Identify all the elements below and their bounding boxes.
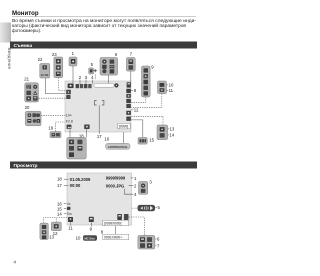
wire from 12/13 boxes (dashed): [44, 218, 69, 223]
svg-text:Монитор: Монитор: [12, 10, 39, 17]
svg-text:6: 6: [115, 52, 118, 57]
svg-text:4x: 4x: [67, 202, 71, 206]
callout 23 icon box: [54, 57, 63, 78]
svg-text:17: 17: [97, 134, 102, 139]
callout 15 icon box: [138, 138, 147, 145]
wire to callout 6/7 box (dashed): [129, 217, 145, 235]
callout 1 icon box: [69, 57, 77, 66]
intro paragraph: [12, 18, 197, 33]
callout 6 label (playback): [155, 237, 160, 242]
callout 6/7 icon box: [138, 235, 155, 249]
callout 9 label (playback): [90, 227, 93, 232]
svg-text:2: 2: [134, 183, 137, 188]
callout 8 label (playback): [101, 229, 104, 234]
callout 9 label: [151, 65, 154, 70]
callout 1 label (playback): [131, 176, 137, 181]
callout 22 label: [38, 57, 43, 62]
svg-text:F2.8: F2.8: [66, 120, 73, 124]
callout 16 quality badge: [106, 143, 130, 149]
svg-text:11: 11: [169, 88, 174, 93]
zoom knob icon: [114, 83, 118, 87]
svg-text:10: 10: [169, 83, 174, 88]
svg-text:19: 19: [48, 125, 53, 130]
section header Просмотр: [10, 162, 197, 169]
wire 5 (dotted): [132, 207, 138, 209]
svg-text:9: 9: [151, 65, 154, 70]
svg-text:21: 21: [24, 76, 29, 81]
svg-text:11: 11: [68, 226, 73, 231]
wire 18b to screen icon: [69, 129, 71, 137]
callout 3 label and tick: [85, 75, 88, 84]
svg-text:Dw: Dw: [67, 212, 72, 216]
svg-text:[9999]: [9999]: [119, 125, 128, 129]
file name text in screen: [106, 183, 124, 188]
svg-text:17: 17: [57, 183, 62, 188]
wire 21 to screen (dashed): [39, 97, 66, 99]
sidebar label Введение: [7, 48, 12, 70]
monitor screen (shooting): [65, 81, 131, 132]
svg-text:8: 8: [101, 229, 104, 234]
callout 13 label: [168, 127, 175, 132]
svg-text:14: 14: [57, 211, 62, 216]
callout 8 label with tick: [131, 88, 136, 93]
left column icons in screen: [66, 90, 71, 99]
callout 3 icon box (playback): [139, 182, 148, 195]
file info box below screen: [103, 234, 129, 240]
callout 16 label and icon (playback): [57, 201, 71, 206]
callout 17 label (playback): [57, 183, 69, 188]
callout 19 label: [48, 125, 53, 130]
callout 7 icon box: [126, 58, 135, 72]
page title Монитор: [12, 10, 196, 17]
callout 18 icon box: [67, 137, 86, 159]
top row indicator icons: [76, 84, 92, 88]
svg-text:1: 1: [72, 51, 75, 56]
svg-text:10: 10: [76, 236, 81, 241]
right column icons in screen: [126, 89, 131, 121]
svg-text:15: 15: [149, 138, 154, 143]
callout 1 label: [72, 51, 75, 56]
battery icon (top-right in screen): [127, 82, 131, 87]
wire 16 from screen: [123, 132, 125, 143]
wire 13/14 from screen (dashed): [131, 116, 163, 125]
svg-text:7: 7: [157, 244, 160, 249]
svg-text:1: 1: [134, 176, 137, 181]
svg-text:01.05.2009: 01.05.2009: [70, 177, 91, 182]
wire 9 to screen (dashed): [131, 97, 146, 102]
svg-text:3: 3: [149, 180, 152, 185]
callout 17 label: [97, 134, 102, 139]
svg-text:9: 9: [90, 227, 93, 232]
callout 15 label and icon (playback): [57, 206, 70, 211]
wire 23 to screen (dashed): [58, 78, 65, 91]
callout 12 label (playback): [53, 231, 58, 236]
callout 22 icon box: [40, 64, 50, 79]
callout 7 label: [130, 52, 133, 57]
svg-text:16: 16: [105, 137, 110, 142]
svg-text:4: 4: [13, 259, 16, 264]
svg-text:11:30: 11:30: [41, 73, 49, 77]
svg-text:13: 13: [49, 235, 54, 240]
svg-text:20: 20: [25, 105, 30, 110]
callout 7 label (playback): [155, 244, 160, 249]
aperture text in screen: [66, 120, 73, 124]
svg-text:7: 7: [130, 52, 133, 57]
voice memo icon in screen (9): [89, 217, 94, 222]
wire 1 to screen: [72, 66, 74, 83]
callout 20 label: [25, 105, 30, 110]
battery/print icons in screen bottom-right: [117, 214, 128, 220]
frame number text in screen: [106, 176, 126, 181]
wire 7 to screen: [130, 71, 132, 82]
wire 5 to screen: [94, 74, 96, 79]
section header Съемка: [10, 42, 197, 49]
callout 21 label: [24, 76, 29, 81]
callout 10 button badge: [83, 235, 97, 240]
svg-text:3: 3: [85, 75, 88, 80]
svg-text:НОРМАЛЬН.: НОРМАЛЬН.: [108, 145, 128, 149]
svg-text:9999/9999: 9999/9999: [106, 176, 126, 181]
wire 20 to screen (dashed): [41, 114, 65, 116]
callout 6 icon box: [100, 58, 118, 76]
callout 23 label: [52, 52, 57, 57]
svg-text:12: 12: [134, 108, 139, 113]
left page-edge tab: [0, 23, 11, 43]
svg-text:00:00: 00:00: [70, 183, 81, 188]
callout 6 label: [115, 52, 118, 57]
callout 15 label: [149, 138, 154, 143]
callout 5 label: [91, 62, 94, 67]
svg-text:4: 4: [91, 75, 94, 80]
wire 6 to screen: [108, 75, 110, 83]
volume badge (5): [138, 205, 156, 211]
callout 12 icon box: [51, 222, 61, 231]
shooting mode icon (top-left in screen): [68, 84, 74, 89]
wire 17 to focus brackets: [98, 105, 100, 133]
callout 2 label (playback): [129, 183, 137, 188]
callout 14 label: [168, 133, 175, 138]
metering icon in screen (above box 18): [84, 125, 89, 130]
callout 21 icon box: [25, 83, 39, 102]
page number: [13, 259, 16, 264]
svg-text:5: 5: [158, 205, 161, 210]
svg-text:13: 13: [170, 127, 175, 132]
callout 10 label (playback): [76, 236, 81, 241]
wire 11: [70, 222, 72, 226]
svg-text:0000.JPG: 0000.JPG: [106, 183, 124, 188]
monitor screen (playback): [67, 173, 132, 225]
callout 10 label: [167, 83, 174, 88]
zoom bar (white pill): [94, 83, 114, 87]
callout 16 label: [105, 137, 110, 142]
svg-text:4: 4: [134, 192, 137, 197]
callout 11 label: [167, 88, 174, 93]
internal-memory counter box in screen: [103, 220, 129, 226]
callout 14 label and icon (playback): [57, 211, 72, 216]
svg-text:6: 6: [157, 237, 160, 242]
callout 9 icon box: [142, 66, 151, 97]
callout 18 label: [79, 134, 84, 139]
wire 19 to screen (dashed): [56, 122, 66, 131]
svg-text:Введение: Введение: [7, 48, 12, 70]
callout 2 label and tick: [79, 75, 82, 84]
callout 20 icon box: [25, 111, 41, 126]
date text in screen: [70, 177, 91, 182]
svg-text:5: 5: [91, 62, 94, 67]
callout 10/11 icon box: [158, 81, 167, 94]
callout 3 label (playback): [149, 180, 152, 185]
wire 18 to screen icon: [86, 129, 88, 137]
svg-text:[9999/9999]: [9999/9999]: [104, 222, 122, 226]
svg-text:10×: 10×: [66, 114, 72, 118]
wire 15 from screen: [130, 120, 143, 137]
svg-text:Съемка: Съемка: [14, 43, 33, 49]
callout 13 label (playback): [49, 235, 54, 240]
svg-text:18: 18: [57, 177, 62, 182]
zoom ratio text in screen: [66, 114, 72, 118]
wire 8: [115, 226, 117, 234]
svg-text:9999.NRW+: 9999.NRW+: [104, 236, 122, 240]
callout 19 icon box: [50, 132, 61, 138]
time text in screen: [70, 183, 81, 188]
svg-text:2: 2: [79, 75, 82, 80]
frame counter box in screen: [118, 123, 131, 129]
svg-text:8: 8: [134, 88, 137, 93]
svg-text:23: 23: [52, 52, 57, 57]
callout 13 icon box: [40, 223, 48, 239]
callout 18 label (playback): [57, 177, 69, 182]
wire 9: [90, 222, 92, 226]
wire 10/11 to screen (dashed): [131, 94, 162, 108]
callout 4 label and tick: [91, 75, 94, 84]
protect icon in screen (11): [68, 217, 73, 222]
callout 5 label (playback): [156, 205, 161, 210]
callout 11 label (playback): [68, 226, 73, 231]
focus brackets in screen: [95, 101, 104, 105]
svg-text:Просмотр: Просмотр: [14, 163, 38, 169]
svg-text:14: 14: [170, 133, 175, 138]
svg-text:NC Btn: NC Btn: [84, 236, 94, 240]
svg-text:фотокамеры).: фотокамеры).: [12, 28, 41, 33]
callout 12 label with tick: [131, 108, 139, 113]
callout 5 icon box with focus cross: [89, 68, 97, 74]
svg-text:22: 22: [38, 57, 43, 62]
callout 13/14 icon box: [157, 125, 168, 140]
mountain (scene) icon bottom-left in screen: [67, 125, 72, 129]
wire 4 and label (playback): [125, 189, 138, 197]
wire 22 to screen: [45, 78, 65, 94]
